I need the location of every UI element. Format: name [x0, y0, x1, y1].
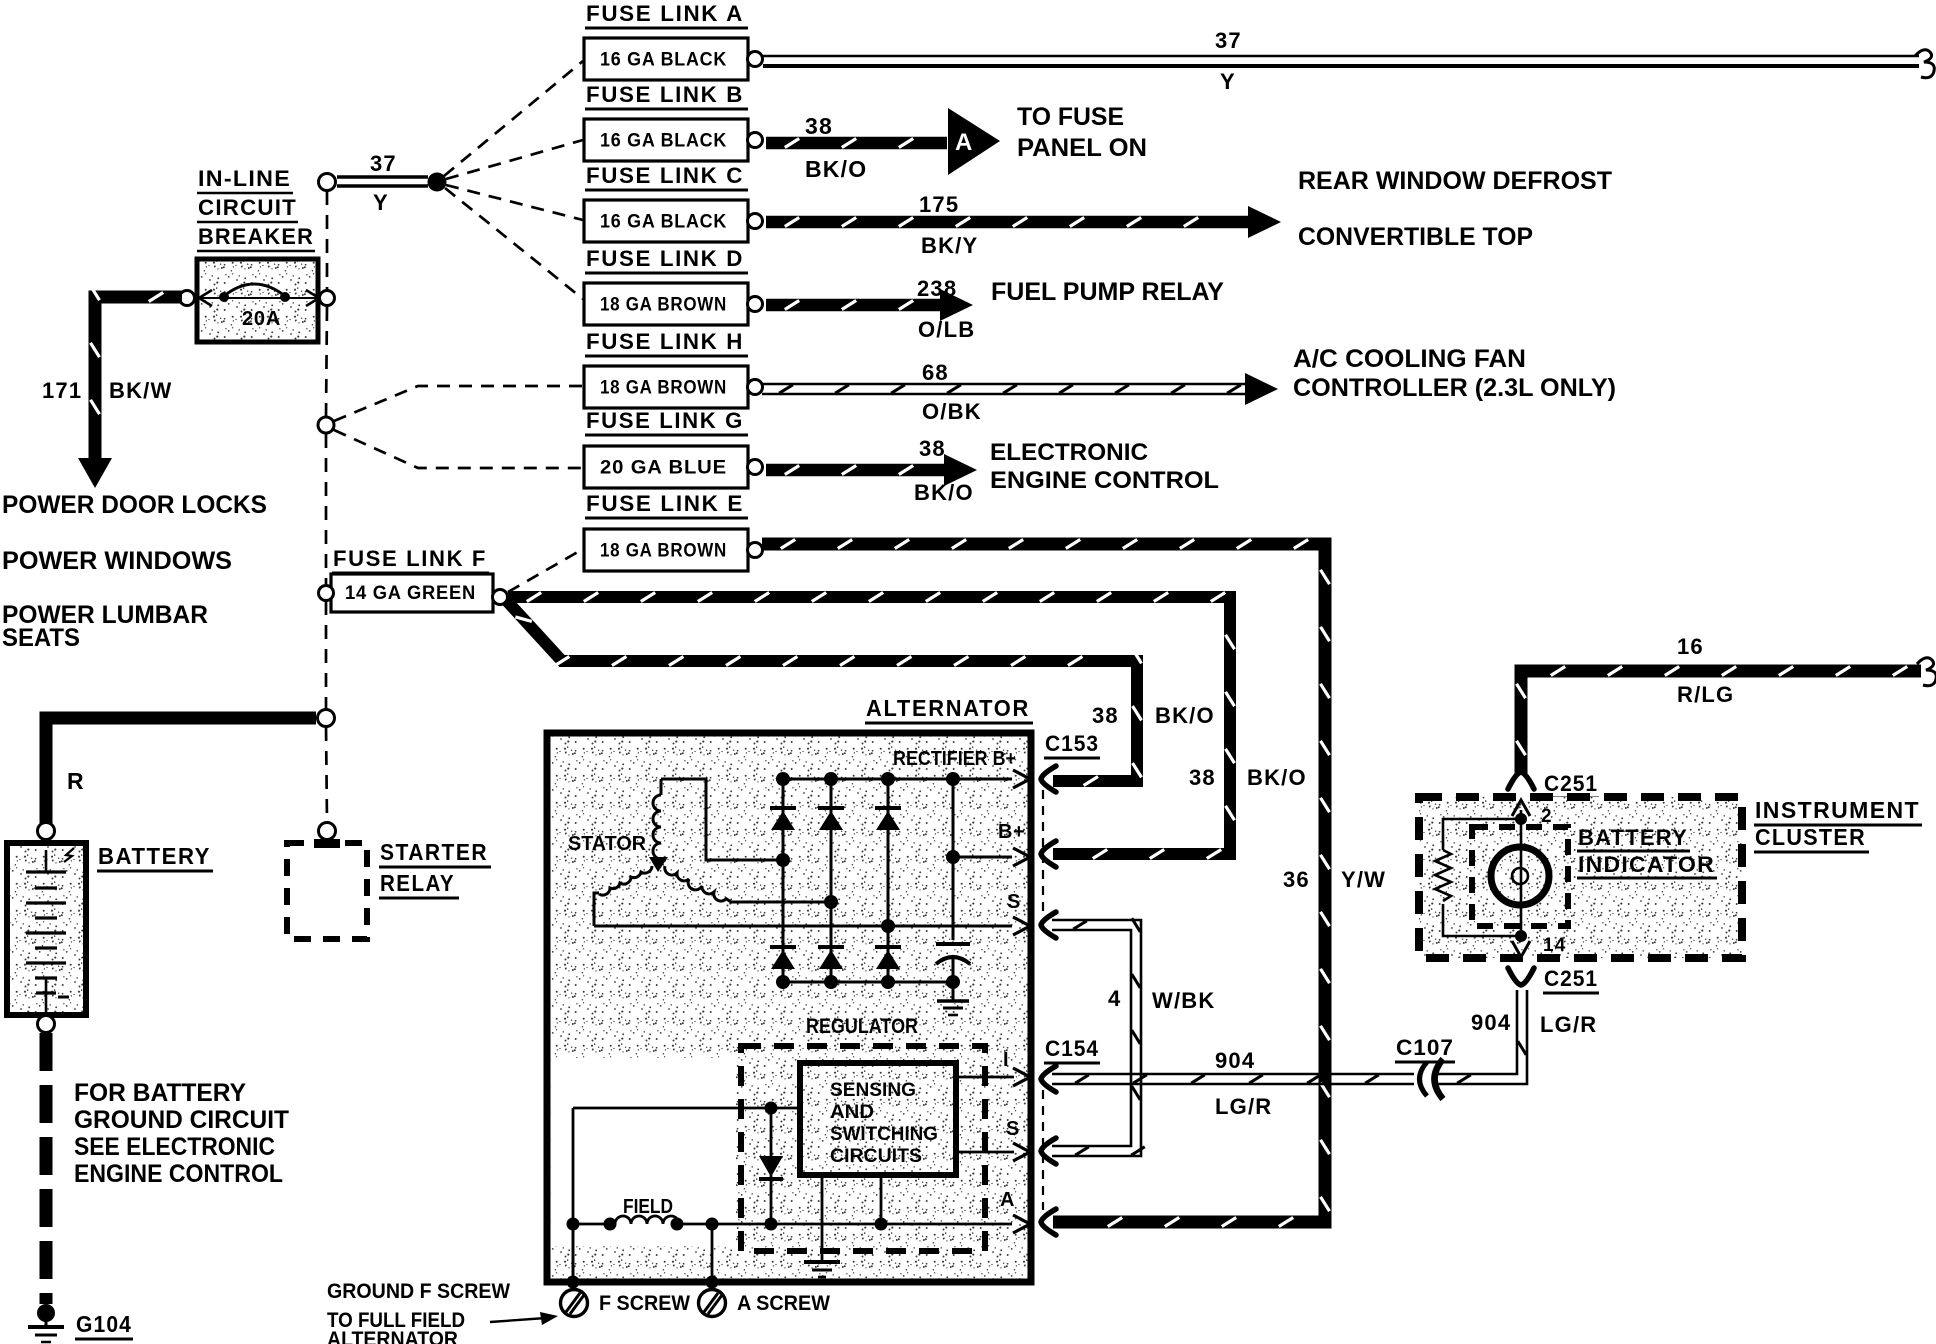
svg-text:ENGINE CONTROL: ENGINE CONTROL	[990, 467, 1219, 494]
svg-text:INDICATOR: INDICATOR	[1578, 852, 1715, 877]
svg-text:SEE ELECTRONIC: SEE ELECTRONIC	[74, 1133, 275, 1161]
svg-text:175: 175	[919, 192, 959, 217]
fuse link B label	[585, 82, 748, 109]
label F SCREW	[599, 1292, 690, 1315]
svg-text:FUSE LINK F: FUSE LINK F	[333, 546, 487, 571]
svg-text:CIRCUITS: CIRCUITS	[830, 1146, 922, 1167]
stator winding (middle phase)	[665, 866, 827, 902]
wire 38 BK/O (fuse link B)	[766, 139, 947, 148]
svg-text:904: 904	[1215, 1048, 1255, 1073]
diode D5 (lower)	[818, 947, 844, 969]
node rect bottom 3	[881, 975, 895, 989]
connector C251 bottom	[1508, 968, 1534, 985]
svg-text:REAR WINDOW DEFROST: REAR WINDOW DEFROST	[1298, 167, 1612, 195]
svg-text:A: A	[955, 129, 972, 156]
svg-text:BK/O: BK/O	[805, 156, 867, 182]
svg-text:16 GA BLACK: 16 GA BLACK	[600, 50, 727, 71]
node pin 2	[1515, 813, 1527, 825]
svg-text:IN-LINE: IN-LINE	[198, 166, 291, 191]
label 904 LG/R (horizontal)	[1215, 1048, 1272, 1119]
svg-text:STARTER: STARTER	[380, 839, 488, 865]
circuit breaker CB1	[195, 259, 320, 342]
stator wye junction	[649, 857, 668, 872]
breaker top terminal	[319, 174, 336, 191]
fuse link F	[331, 574, 493, 612]
svg-text:F SCREW: F SCREW	[599, 1292, 690, 1315]
sensing and switching circuits box	[800, 1063, 956, 1175]
label REAR WINDOW DEFROST	[1298, 167, 1612, 195]
label pin 14	[1543, 935, 1567, 956]
svg-text:FUSE LINK C: FUSE LINK C	[586, 163, 744, 188]
label 238 O/LB	[917, 276, 975, 342]
fuse link E	[584, 529, 748, 571]
zener diode wire	[770, 1108, 773, 1224]
label REGULATOR	[806, 1015, 918, 1038]
svg-text:FUSE LINK E: FUSE LINK E	[586, 491, 744, 516]
node field mid	[706, 1218, 719, 1231]
svg-text:STATOR: STATOR	[568, 833, 647, 855]
svg-text:GROUND CIRCUIT: GROUND CIRCUIT	[74, 1106, 289, 1134]
svg-text:20 GA BLUE: 20 GA BLUE	[600, 458, 727, 479]
svg-text:A: A	[1000, 1189, 1015, 1211]
svg-text:FOR BATTERY: FOR BATTERY	[74, 1079, 246, 1107]
label 37 Y (right)	[1215, 28, 1242, 94]
wire 238 O/LB (fuse link D)	[766, 301, 940, 310]
label FIELD	[623, 1196, 673, 1218]
ground G104	[28, 1304, 64, 1342]
field ground stub 2	[711, 1224, 714, 1282]
svg-text:POWER DOOR LOCKS: POWER DOOR LOCKS	[2, 491, 267, 519]
label G104	[75, 1311, 133, 1339]
svg-text:C107: C107	[1396, 1035, 1454, 1060]
phase line 2	[731, 901, 831, 904]
svg-text:SEATS: SEATS	[2, 624, 80, 652]
label 38 BK/O (G)	[914, 436, 974, 505]
pin arrow RECTIFIER B+	[1013, 770, 1030, 788]
fuse link H label	[585, 329, 748, 356]
label TO FUSE PANEL ON	[1017, 103, 1147, 162]
wire (dashed) R node to starter relay	[326, 727, 327, 822]
wire fuse link F branch to rectifier B+ (38 BK/O)	[506, 600, 1142, 786]
label 4 W/BK	[1108, 986, 1215, 1013]
stator winding (left phase)	[594, 866, 652, 926]
left dashed tap node	[318, 417, 334, 433]
B+ output line	[953, 856, 1012, 859]
connector C251 top label	[1543, 771, 1599, 798]
svg-text:14 GA GREEN: 14 GA GREEN	[345, 583, 476, 604]
arrow to electronic engine control	[944, 454, 977, 486]
node field coil right	[671, 1218, 684, 1231]
wire 37 Y (breaker to junction)	[337, 177, 428, 186]
wire (dashed) tap to fuse link H	[334, 386, 583, 421]
svg-text:AND: AND	[830, 1102, 874, 1123]
label I	[1003, 1049, 1009, 1071]
svg-text:38: 38	[919, 436, 946, 461]
svg-text:171: 171	[42, 378, 82, 403]
phase line 3 / stator S output	[594, 925, 1012, 928]
connector C154 pin 3	[1041, 1209, 1056, 1235]
svg-text:CLUSTER: CLUSTER	[1755, 824, 1866, 850]
node pin 14	[1515, 930, 1527, 942]
pin arrow S (stator)	[1013, 917, 1030, 935]
label 38 BK/O (B)	[805, 113, 867, 182]
node sensing field	[875, 1218, 888, 1231]
svg-text:LG/R: LG/R	[1540, 1012, 1597, 1037]
connector C153 dashed link	[1042, 790, 1044, 914]
svg-text:FUSE LINK H: FUSE LINK H	[586, 329, 744, 354]
svg-text:O/LB: O/LB	[918, 317, 975, 342]
pin arrow S (regulator)	[956, 1143, 1030, 1161]
connector C251 bottom label	[1543, 966, 1599, 993]
indicator bulb	[1491, 847, 1549, 905]
svg-text:S: S	[1006, 1118, 1020, 1140]
battery top terminal	[38, 823, 55, 840]
wire 171 BK/W	[91, 286, 183, 458]
wire (dashed) F terminal to fuse link E	[508, 549, 583, 592]
svg-text:O/BK: O/BK	[922, 399, 982, 424]
label ELECTRONIC ENGINE CONTROL	[990, 439, 1219, 494]
node rect bottom 2	[824, 975, 838, 989]
svg-text:BK/W: BK/W	[109, 378, 172, 403]
label A SCREW	[737, 1292, 830, 1315]
connector C154 pin 1	[1041, 1066, 1056, 1092]
connector C154 dashed link	[1042, 1090, 1044, 1210]
svg-text:16 GA BLACK: 16 GA BLACK	[600, 212, 727, 233]
svg-text:SENSING: SENSING	[830, 1080, 916, 1101]
svg-text:CONTROLLER (2.3L ONLY): CONTROLLER (2.3L ONLY)	[1293, 374, 1616, 402]
diode D6 (lower)	[875, 947, 901, 969]
regulator upper wire	[573, 1107, 800, 1110]
wire (dashed) breaker to tap node	[326, 307, 327, 416]
fuse link B terminal	[748, 133, 763, 148]
svg-text:B+: B+	[998, 821, 1025, 843]
svg-text:16 GA BLACK: 16 GA BLACK	[600, 131, 727, 152]
rectifier column 3 wire	[887, 779, 890, 982]
indicator bulb wire	[1520, 819, 1523, 936]
node phase1 tap	[776, 853, 790, 867]
svg-text:R: R	[67, 768, 85, 794]
wire 16 R/LG	[1517, 658, 1936, 774]
svg-text:C154: C154	[1045, 1036, 1099, 1061]
rectifier top bus	[783, 778, 1012, 781]
label RECTIFIER B+	[893, 748, 1016, 770]
wire 175 BK/Y (fuse link C)	[766, 218, 1248, 227]
fuse link A label	[585, 1, 748, 28]
svg-text:38: 38	[1092, 703, 1119, 728]
arrow to fuel pump relay	[940, 289, 973, 321]
label 38 BK/O (E vertical upper)	[1189, 765, 1307, 790]
fuse link F label	[332, 546, 489, 573]
svg-text:BATTERY: BATTERY	[98, 843, 211, 869]
breaker left terminal	[180, 291, 195, 306]
rectifier bottom bus	[783, 981, 953, 984]
label S (regulator)	[1006, 1118, 1020, 1140]
svg-text:ELECTRONIC: ELECTRONIC	[990, 439, 1148, 466]
svg-text:S: S	[1007, 891, 1021, 913]
fuse link D terminal	[748, 297, 763, 312]
label 38 BK/O (to rectifier)	[1092, 703, 1215, 728]
starter relay K1	[287, 839, 367, 939]
fuse link F right terminal	[493, 590, 508, 605]
wire battery ground (dashed)	[40, 1033, 53, 1304]
svg-text:18 GA BROWN: 18 GA BROWN	[600, 378, 727, 399]
node field left	[567, 1218, 580, 1231]
label pin 2	[1541, 806, 1553, 827]
field ground stub 1	[572, 1224, 575, 1282]
svg-text:BK/O: BK/O	[1247, 765, 1307, 790]
label CONVERTIBLE TOP	[1298, 223, 1533, 251]
node zener bottom	[765, 1218, 778, 1231]
starter relay terminal	[319, 823, 336, 840]
wire (dashed) junction to fuse link C	[446, 185, 583, 220]
label POWER WINDOWS	[2, 547, 232, 575]
arrow to rear window defrost	[1248, 206, 1281, 238]
pin arrow A	[1013, 1215, 1030, 1233]
node case left	[567, 1276, 580, 1289]
label 37 Y (junction)	[362, 151, 400, 215]
wire (dashed) junction to fuse link A	[444, 61, 583, 176]
regulator ground	[804, 1262, 840, 1277]
svg-text:ENGINE CONTROL: ENGINE CONTROL	[74, 1160, 283, 1188]
svg-text:CONVERTIBLE TOP: CONVERTIBLE TOP	[1298, 223, 1533, 251]
svg-text:TO FUSE: TO FUSE	[1017, 103, 1124, 131]
fuse link D label	[585, 246, 748, 273]
svg-text:238: 238	[917, 276, 957, 301]
svg-text:CIRCUIT: CIRCUIT	[198, 195, 297, 220]
wire (dashed) F terminal to R node	[325, 601, 328, 709]
svg-text:R/LG: R/LG	[1677, 682, 1734, 707]
fuse link C label	[585, 163, 748, 190]
instrument cluster box (dashed)	[1419, 797, 1742, 958]
rectifier column 2 wire	[830, 779, 833, 982]
fuse link E terminal	[748, 543, 763, 558]
label POWER DOOR LOCKS	[2, 491, 267, 519]
svg-text:16: 16	[1677, 634, 1704, 659]
indicator shunt resistor	[1435, 819, 1521, 936]
svg-text:904: 904	[1471, 1010, 1511, 1035]
wire (dashed) tap to fuse link G	[334, 430, 583, 468]
label B+	[998, 821, 1025, 843]
svg-text:PANEL ON: PANEL ON	[1017, 134, 1147, 162]
sensing to field wire	[880, 1175, 883, 1224]
wire (dashed) junction to fuse link B	[446, 140, 583, 179]
fuse link A terminal	[748, 52, 763, 67]
svg-text:Y: Y	[373, 190, 389, 215]
alternator box	[547, 733, 1031, 1282]
label 36 Y/W	[1283, 867, 1386, 892]
sensing box ground wire	[821, 1175, 824, 1261]
svg-text:FUEL PUMP RELAY: FUEL PUMP RELAY	[991, 278, 1224, 306]
svg-text:18 GA BROWN: 18 GA BROWN	[600, 541, 727, 562]
capacitor column wire	[952, 779, 955, 982]
svg-text:BREAKER: BREAKER	[198, 224, 314, 249]
label POWER LUMBAR SEATS	[2, 601, 208, 652]
label 175 BK/Y	[919, 192, 978, 258]
svg-text:RECTIFIER B+: RECTIFIER B+	[893, 748, 1016, 770]
svg-text:I: I	[1003, 1049, 1009, 1071]
connector C154 pin 2	[1041, 1138, 1056, 1164]
diode D4 (lower)	[770, 947, 796, 969]
svg-text:BK/Y: BK/Y	[921, 233, 978, 258]
svg-text:LG/R: LG/R	[1215, 1094, 1272, 1119]
fuse link C terminal	[748, 214, 763, 229]
diode D1 (upper)	[770, 808, 796, 830]
label 16 R/LG	[1677, 634, 1734, 707]
svg-text:C153: C153	[1045, 731, 1099, 756]
label A	[1000, 1189, 1015, 1211]
phase line 1	[706, 859, 783, 862]
diode D2 (upper)	[818, 808, 844, 830]
battery indicator box (dashed)	[1472, 827, 1568, 926]
pin 14 arrow	[1512, 941, 1530, 957]
svg-text:20A: 20A	[242, 308, 281, 330]
pin 2 arrow	[1512, 800, 1530, 818]
svg-text:RELAY: RELAY	[380, 870, 455, 896]
label S (stator)	[1007, 891, 1021, 913]
fuse link H terminal	[748, 380, 763, 395]
svg-text:C251: C251	[1544, 966, 1598, 991]
wire 37 Y (fuse link A to right edge)	[763, 50, 1934, 78]
battery BAT1	[7, 843, 86, 1015]
stator winding (vertical coil)	[653, 779, 779, 860]
wire (dashed) junction to fuse link D	[445, 188, 583, 299]
svg-text:A/C COOLING FAN: A/C COOLING FAN	[1293, 345, 1526, 373]
wire R (battery feed)	[46, 718, 316, 826]
node rect top 1	[776, 772, 790, 786]
connector C107	[1420, 1059, 1444, 1099]
fuse link E label	[585, 491, 748, 518]
breaker right terminal	[320, 291, 335, 306]
svg-text:FUSE LINK D: FUSE LINK D	[586, 246, 744, 271]
fuse link D	[584, 283, 748, 325]
alternator label	[865, 695, 1033, 723]
arrow A to fuse panel	[948, 108, 1000, 175]
fuse link G	[584, 446, 748, 488]
svg-text:BK/O: BK/O	[1155, 703, 1215, 728]
field wire	[573, 1216, 1012, 1224]
capacitor C (radio suppression)	[936, 944, 970, 964]
svg-text:POWER WINDOWS: POWER WINDOWS	[2, 547, 232, 575]
svg-text:INSTRUMENT: INSTRUMENT	[1755, 797, 1920, 823]
svg-text:C251: C251	[1544, 771, 1598, 796]
svg-text:Y/W: Y/W	[1341, 867, 1386, 892]
label STATOR	[568, 833, 647, 855]
F screw	[561, 1290, 588, 1317]
svg-text:A SCREW: A SCREW	[737, 1292, 830, 1315]
arrow to AC cooling fan controller	[1245, 373, 1278, 405]
node rect top 2	[824, 772, 838, 786]
svg-text:14: 14	[1543, 935, 1567, 956]
fuse link A	[584, 38, 748, 80]
node regulator upper	[765, 1102, 778, 1115]
connector C153 pin 1	[1041, 766, 1056, 792]
svg-text:38: 38	[805, 113, 833, 139]
svg-text:FIELD: FIELD	[623, 1196, 673, 1218]
arrow to power door locks	[78, 458, 112, 488]
svg-text:FUSE LINK G: FUSE LINK G	[586, 408, 744, 433]
svg-text:GROUND F SCREW: GROUND F SCREW	[327, 1280, 510, 1303]
node rect top 3	[881, 772, 895, 786]
connector C251 top	[1508, 772, 1534, 789]
svg-text:18 GA BROWN: 18 GA BROWN	[600, 295, 727, 316]
svg-text:Y: Y	[1220, 69, 1236, 94]
svg-text:G104: G104	[76, 1311, 132, 1337]
pin arrow I	[956, 1068, 1030, 1086]
wire 4 W/BK	[1052, 918, 1145, 1156]
node rect bottom 1	[776, 975, 790, 989]
rectifier ground	[937, 982, 969, 1015]
regulator left wire	[572, 1108, 575, 1282]
fuse link F left terminal	[319, 586, 334, 601]
regulator box (dashed)	[741, 1046, 985, 1251]
rectifier column 1 wire	[782, 779, 785, 982]
label FUEL PUMP RELAY	[991, 278, 1224, 306]
svg-text:2: 2	[1541, 806, 1553, 827]
label 171 BK/W	[42, 378, 172, 403]
fuse link G terminal	[748, 460, 763, 475]
connector C154 label	[1044, 1036, 1100, 1063]
connector C153 label	[1044, 731, 1100, 758]
svg-text:SWITCHING: SWITCHING	[830, 1124, 938, 1145]
svg-text:REGULATOR: REGULATOR	[806, 1015, 918, 1038]
svg-text:4: 4	[1108, 986, 1121, 1011]
svg-text:36: 36	[1283, 867, 1310, 892]
svg-text:ALTERNATOR: ALTERNATOR	[866, 695, 1030, 721]
starter relay label	[379, 839, 491, 898]
wire 904 LG/R	[1052, 990, 1527, 1084]
fuse link H	[584, 366, 748, 408]
svg-text:68: 68	[922, 360, 949, 385]
instrument cluster label	[1754, 797, 1922, 852]
node R junction	[318, 710, 335, 727]
in-line circuit breaker label	[197, 166, 315, 251]
wire (dashed) breaker top to breaker	[326, 191, 329, 290]
A screw	[699, 1290, 726, 1317]
svg-text:37: 37	[1215, 28, 1242, 53]
svg-text:W/BK: W/BK	[1152, 988, 1215, 1013]
node splice junction	[428, 173, 447, 192]
label R	[67, 768, 85, 794]
connector C107 label	[1395, 1035, 1455, 1062]
svg-text:37: 37	[370, 151, 397, 176]
label GROUND F SCREW TO FULL FIELD ALTERNATOR	[327, 1280, 510, 1344]
diode D3 (upper)	[875, 808, 901, 830]
label A/C COOLING FAN CONTROLLER	[1293, 345, 1616, 402]
svg-text:FUSE LINK A: FUSE LINK A	[586, 1, 744, 26]
fuse link B	[584, 119, 748, 161]
wire 38 BK/O (fuse link G)	[766, 466, 944, 475]
connector C153 pin 2	[1041, 841, 1056, 867]
node rect top 4	[946, 772, 960, 786]
pin arrow B+	[1013, 848, 1030, 866]
leader arrow to F screw	[490, 1312, 558, 1325]
node phase2 tap	[824, 895, 838, 909]
fuse link G label	[585, 408, 748, 435]
label FOR BATTERY GROUND CIRCUIT	[74, 1079, 289, 1188]
battery indicator label	[1577, 825, 1717, 878]
battery bottom terminal	[38, 1016, 55, 1033]
wire fuse link F branch to B+ (38 BK/O)	[508, 593, 1235, 859]
connector C153 pin 3	[1041, 912, 1056, 938]
wire (dashed) tap node to F terminal	[325, 434, 328, 585]
fuse link C	[584, 200, 748, 242]
node phase3 tap	[881, 919, 895, 933]
label 904 LG/R (vertical)	[1471, 1010, 1597, 1037]
node B+ tap	[946, 850, 960, 864]
svg-text:BATTERY: BATTERY	[1578, 825, 1688, 850]
svg-text:ALTERNATOR: ALTERNATOR	[327, 1328, 458, 1344]
label 68 O/BK	[922, 360, 982, 424]
